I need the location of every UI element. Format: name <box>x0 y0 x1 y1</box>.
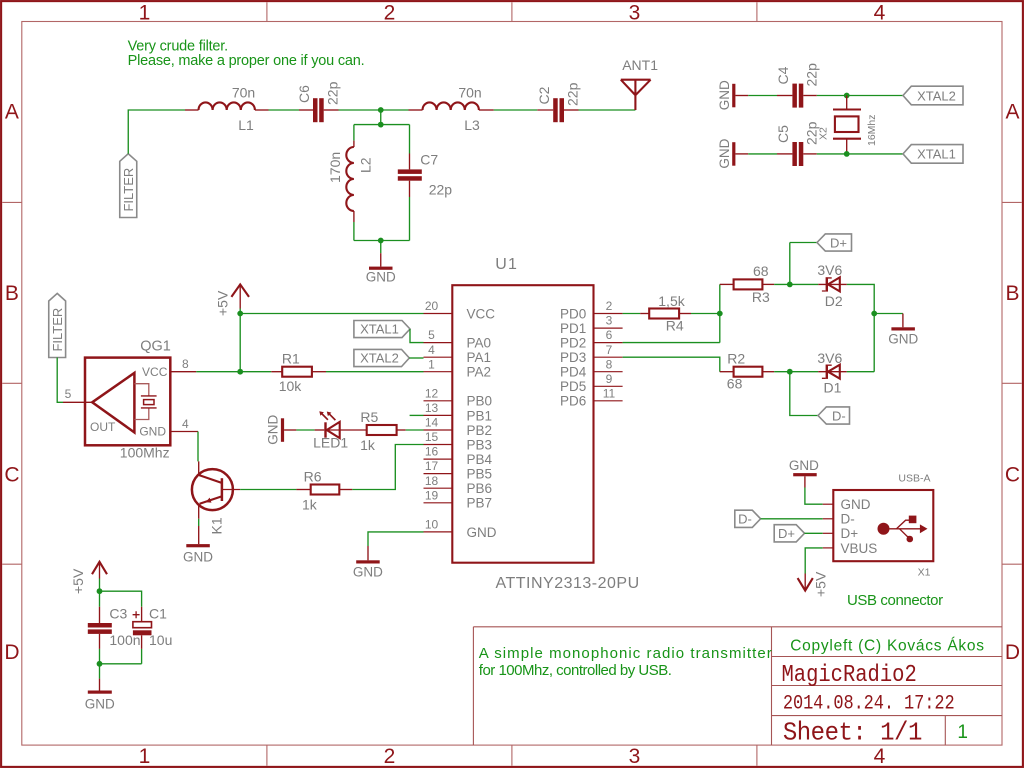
junction XTAL2 node <box>844 93 850 99</box>
frame row labels left A B C D <box>4 101 19 665</box>
pin 8 PD4 U1 right <box>594 371 623 373</box>
svg-text:4: 4 <box>182 417 189 431</box>
svg-text:D2: D2 <box>825 293 843 309</box>
junction +5V to VCC <box>237 311 243 317</box>
wire QG1 pin 4 GND <box>170 431 198 433</box>
wire K1 base to R6 <box>240 489 296 491</box>
supply +5V (row D) <box>92 562 107 574</box>
capacitor C5 22p <box>792 142 797 166</box>
capacitor C6 22p <box>313 98 318 122</box>
svg-text:22p: 22p <box>429 182 453 198</box>
svg-text:PA1: PA1 <box>467 350 492 365</box>
svg-text:XTAL1: XTAL1 <box>917 147 956 162</box>
pin GND X1 <box>823 503 834 505</box>
svg-text:3V6: 3V6 <box>817 262 842 278</box>
junction on main wire <box>378 107 384 113</box>
svg-text:X1: X1 <box>918 566 931 578</box>
wire ground to USB GND pin <box>804 476 806 487</box>
svg-text:22p: 22p <box>804 63 820 87</box>
svg-text:D+: D+ <box>778 526 795 541</box>
wire GND to C5 <box>735 153 748 155</box>
svg-text:FILTER: FILTER <box>50 308 65 352</box>
svg-text:K1: K1 <box>209 517 225 534</box>
note description <box>479 645 773 679</box>
svg-text:Sheet: 1/1: Sheet: 1/1 <box>783 719 922 748</box>
ground GND at C4 (rotated) <box>732 84 735 108</box>
svg-text:OUT: OUT <box>90 420 116 434</box>
ground GND at LED1 (rotated) <box>281 418 284 442</box>
svg-text:PB1: PB1 <box>467 408 493 423</box>
svg-text:2014.08.24. 17:22: 2014.08.24. 17:22 <box>783 691 955 715</box>
wire +5V to U1 VCC pin 20 <box>240 313 423 315</box>
svg-text:GND: GND <box>841 497 871 512</box>
svg-text:1k: 1k <box>360 437 376 453</box>
svg-text:1: 1 <box>428 357 435 371</box>
inductor L1 <box>199 102 255 110</box>
svg-text:C3: C3 <box>109 606 127 622</box>
junction tank bottom <box>378 238 384 244</box>
junction GND branch node <box>871 311 877 317</box>
ground GND right of D2 <box>891 327 915 330</box>
svg-text:C1: C1 <box>149 606 167 622</box>
svg-text:70n: 70n <box>232 85 255 101</box>
svg-text:C5: C5 <box>775 125 791 143</box>
svg-text:16Mhz: 16Mhz <box>866 114 878 146</box>
svg-text:18: 18 <box>425 474 439 488</box>
pin 19 PB7 U1 left <box>424 502 453 504</box>
flag D+ (USB) <box>774 525 804 542</box>
svg-text:GND: GND <box>353 564 383 579</box>
svg-text:GND: GND <box>266 414 281 444</box>
svg-text:for 100Mhz, controlled by USB.: for 100Mhz, controlled by USB. <box>479 662 672 679</box>
capacitor C3 100n <box>99 591 101 607</box>
junction +5V to R1 <box>237 369 243 375</box>
svg-text:USB connector: USB connector <box>847 592 943 609</box>
junction tank top <box>378 122 384 128</box>
svg-text:D: D <box>4 641 19 664</box>
svg-text:PB6: PB6 <box>467 481 493 496</box>
wire node to ground <box>874 313 903 315</box>
frame column labels bottom 1 2 3 4 <box>139 745 886 768</box>
svg-text:U1: U1 <box>495 256 518 273</box>
svg-text:PD2: PD2 <box>560 336 586 351</box>
svg-text:1: 1 <box>139 745 151 768</box>
wire GND to LED1 <box>284 429 296 431</box>
wire U1 pin 10 to ground <box>368 532 424 546</box>
ground GND at C3 <box>88 691 112 694</box>
svg-text:12: 12 <box>425 386 439 400</box>
svg-text:LED1: LED1 <box>313 434 348 450</box>
svg-text:4: 4 <box>428 343 435 357</box>
wire C5 to XTAL1 flag <box>803 153 817 155</box>
frame column labels top 1 2 3 4 <box>139 2 886 25</box>
svg-text:2: 2 <box>606 299 613 313</box>
svg-text:6: 6 <box>606 328 613 342</box>
wire L2 bottom lead <box>353 211 355 222</box>
pin 14 PB2 U1 left <box>424 429 453 431</box>
svg-text:B: B <box>1005 282 1019 305</box>
wire node riser R3 to PD2 <box>719 284 721 342</box>
capacitor C4 22p <box>792 84 797 108</box>
svg-text:XTAL1: XTAL1 <box>360 322 399 337</box>
wire stub on PB1 <box>410 414 424 416</box>
pin 9 PD5 U1 right <box>594 385 623 387</box>
frame column ticks bottom <box>267 745 757 766</box>
svg-text:15: 15 <box>425 430 439 444</box>
svg-text:16: 16 <box>425 445 439 459</box>
svg-text:PD5: PD5 <box>560 379 586 394</box>
pin 5 PA0 U1 left <box>424 342 453 344</box>
diode D1 zener 3V6 <box>818 371 847 373</box>
wire L2 top lead <box>353 125 355 141</box>
wire D- flag to X1 <box>761 518 823 520</box>
svg-text:GND: GND <box>85 696 115 711</box>
ground GND at K1 <box>186 544 210 547</box>
pin 6 PD2 U1 right <box>594 342 623 344</box>
supply +5V (top) <box>231 284 249 297</box>
USB trident icon <box>878 523 890 535</box>
svg-text:5: 5 <box>65 387 72 401</box>
ground tank GND <box>369 267 393 270</box>
wire C7 top lead <box>409 125 411 154</box>
svg-text:3: 3 <box>629 2 641 25</box>
diode LED1 <box>324 422 326 437</box>
wire FILTER flag to QG1 OUT <box>57 358 63 403</box>
pin 12 PB0 U1 left <box>424 400 453 402</box>
pin VBUS X1 <box>823 547 834 549</box>
svg-text:1,5k: 1,5k <box>658 293 685 309</box>
wire R6 to PB3 <box>352 445 423 490</box>
inductor L3 70n <box>423 102 479 110</box>
pin 17 PB5 U1 left <box>424 473 453 475</box>
svg-text:D+: D+ <box>830 235 847 250</box>
pin 3 PD1 U1 right <box>594 327 623 329</box>
wire C6 to L3 with junction <box>324 109 339 111</box>
junction top rail <box>97 588 103 594</box>
pin D- X1 <box>823 518 834 520</box>
flag FILTER (row B) <box>49 293 66 357</box>
svg-text:R6: R6 <box>304 468 322 484</box>
wire QG1 pin 5 stub <box>63 401 92 403</box>
svg-text:XTAL2: XTAL2 <box>360 350 399 365</box>
svg-text:3V6: 3V6 <box>817 350 842 366</box>
svg-text:PB0: PB0 <box>467 394 493 409</box>
svg-text:1: 1 <box>139 2 151 25</box>
svg-text:PD3: PD3 <box>560 350 586 365</box>
svg-text:PD0: PD0 <box>560 306 586 321</box>
svg-text:C2: C2 <box>536 86 552 104</box>
crystal X2 16Mhz <box>833 110 861 139</box>
svg-text:D+: D+ <box>841 526 859 541</box>
svg-text:1: 1 <box>957 722 968 743</box>
svg-text:4: 4 <box>874 745 886 768</box>
IC U1 ATTINY2313-20PU body <box>452 285 593 563</box>
wire C7 bottom lead <box>409 181 411 197</box>
svg-text:ANT1: ANT1 <box>622 57 658 73</box>
svg-text:11: 11 <box>603 386 616 400</box>
flag XTAL2 (at U1) <box>354 349 409 366</box>
svg-text:+5V: +5V <box>70 568 86 594</box>
wire K1 emitter to ground <box>198 519 200 526</box>
svg-text:C: C <box>4 464 19 487</box>
wire XTAL2 flag to PA1 <box>409 357 423 359</box>
svg-text:L1: L1 <box>238 117 254 133</box>
svg-text:PB7: PB7 <box>467 496 493 511</box>
flag FILTER (top) <box>120 154 137 218</box>
wire crystal bottom lead <box>846 139 848 154</box>
svg-text:70n: 70n <box>458 85 481 101</box>
svg-text:PB3: PB3 <box>467 437 493 452</box>
svg-text:GND: GND <box>366 270 396 285</box>
svg-text:170n: 170n <box>327 152 343 183</box>
wire D- riser <box>790 372 818 416</box>
svg-text:20: 20 <box>425 299 439 313</box>
svg-text:5: 5 <box>428 328 435 342</box>
svg-text:VCC: VCC <box>467 306 496 321</box>
svg-text:Please, make a proper one if y: Please, make a proper one if you can. <box>128 53 365 69</box>
pin 7 PD3 U1 right <box>594 356 623 358</box>
wire QG1 pin 8 VCC <box>170 371 196 373</box>
wire D+ riser <box>790 243 817 285</box>
svg-text:9: 9 <box>606 372 613 386</box>
wire GND to C4 <box>735 95 748 97</box>
svg-text:17: 17 <box>425 459 439 473</box>
wire tank bottom rail <box>354 240 410 242</box>
svg-text:MagicRadio2: MagicRadio2 <box>782 662 917 689</box>
svg-text:D-: D- <box>832 408 846 423</box>
wire C4 to XTAL2 flag <box>803 95 817 97</box>
svg-text:Copyleft (C) Kovács Ákos: Copyleft (C) Kovács Ákos <box>790 638 985 655</box>
wire junction drop to tank <box>380 110 382 125</box>
wire crystal top lead <box>846 96 848 110</box>
svg-text:D1: D1 <box>824 380 842 396</box>
svg-text:8: 8 <box>182 357 189 371</box>
wire tank top rail <box>354 124 410 126</box>
svg-text:D-: D- <box>738 512 752 527</box>
connector X1 USB-A body <box>833 490 933 561</box>
svg-text:3: 3 <box>629 745 641 768</box>
svg-text:GND: GND <box>467 525 497 540</box>
pin 13 PB1 U1 left <box>424 414 453 416</box>
svg-text:2: 2 <box>384 745 396 768</box>
svg-text:68: 68 <box>727 375 743 391</box>
svg-text:3: 3 <box>606 314 613 328</box>
svg-text:PA2: PA2 <box>467 365 492 380</box>
capacitor C2 22p <box>553 98 558 122</box>
flag XTAL1 (at U1) <box>354 321 410 338</box>
svg-text:GND: GND <box>717 138 732 168</box>
op-amp QG1 oscillator box <box>85 358 170 446</box>
resistor R5 1k <box>367 425 397 435</box>
pin 15 PB3 U1 left <box>424 444 453 446</box>
svg-text:7: 7 <box>606 343 613 357</box>
junction D+ node <box>787 282 793 288</box>
ground GND above USB (rotated 180) <box>793 473 817 476</box>
resistor R4 1,5k <box>623 313 641 315</box>
wire XTAL1 flag to PA0 <box>410 329 424 343</box>
wire D1 to right vertical <box>847 371 874 373</box>
pin 2 PD0 U1 right <box>594 313 623 315</box>
svg-text:D-: D- <box>841 512 855 527</box>
resistor R6 1k <box>311 485 340 495</box>
svg-text:100Mhz: 100Mhz <box>120 445 170 461</box>
pin 11 PD6 U1 right <box>594 400 623 402</box>
svg-text:A: A <box>1005 101 1019 124</box>
pin 16 PB4 U1 left <box>424 458 453 460</box>
wire D+ flag to X1 <box>805 532 823 534</box>
svg-text:10k: 10k <box>279 378 303 394</box>
svg-text:2: 2 <box>384 2 396 25</box>
flag D- (mid) <box>818 407 850 424</box>
svg-text:VCC: VCC <box>142 365 168 379</box>
svg-text:10: 10 <box>425 518 439 532</box>
transistor K1 <box>198 461 200 475</box>
wire L1 to C6 <box>255 109 269 111</box>
flag XTAL2 <box>903 86 963 105</box>
svg-text:L2: L2 <box>358 157 374 173</box>
flag D- (USB) <box>735 510 761 527</box>
wire PD3 to R2 <box>623 357 720 372</box>
wire C2 to antenna <box>564 109 579 111</box>
diode D2 zener 3V6 <box>818 283 847 285</box>
svg-text:R4: R4 <box>666 317 684 333</box>
svg-text:PD6: PD6 <box>560 394 586 409</box>
inductor L2 170n <box>346 147 354 211</box>
ground GND below U1 <box>356 560 380 563</box>
svg-text:+5V: +5V <box>215 290 231 316</box>
svg-text:GND: GND <box>888 332 918 347</box>
svg-text:D: D <box>1005 641 1020 664</box>
title block outline <box>473 627 1002 745</box>
wire D2 to right vertical <box>847 284 874 371</box>
junction XTAL1 node <box>844 151 850 157</box>
pin 20 VCC U1 left <box>424 313 453 315</box>
svg-text:GND: GND <box>139 424 166 438</box>
svg-text:19: 19 <box>425 488 439 502</box>
resistor R2 68 <box>720 371 734 373</box>
svg-text:A: A <box>5 101 19 124</box>
svg-text:PB5: PB5 <box>467 467 493 482</box>
antenna ANT1 <box>621 80 651 110</box>
svg-text:22p: 22p <box>324 81 340 105</box>
svg-text:4: 4 <box>874 2 886 25</box>
svg-text:8: 8 <box>606 357 613 371</box>
pin D+ X1 <box>823 532 834 534</box>
svg-text:USB-A: USB-A <box>898 472 930 484</box>
pin 10 GND U1 left <box>424 531 453 533</box>
svg-text:+5V: +5V <box>813 571 829 597</box>
wire L3 to C2 <box>479 109 494 111</box>
wire PD2 to node <box>623 342 720 344</box>
wire pin stub L1 left <box>185 109 199 111</box>
svg-text:GND: GND <box>789 458 819 473</box>
wire VBUS to +5V <box>805 548 823 574</box>
svg-text:VBUS: VBUS <box>841 541 878 556</box>
flag XTAL1 <box>903 145 963 164</box>
supply +5V (down arrow at USB) <box>804 574 806 591</box>
flag D+ (top) <box>817 234 852 251</box>
resistor R3 68 <box>720 283 734 285</box>
svg-text:FILTER: FILTER <box>121 168 136 212</box>
pin 18 PB6 U1 left <box>424 487 453 489</box>
svg-text:PD4: PD4 <box>560 365 587 380</box>
svg-text:C4: C4 <box>775 66 791 84</box>
svg-text:B: B <box>5 282 19 305</box>
svg-text:GND: GND <box>183 550 213 565</box>
svg-text:22p: 22p <box>565 82 581 106</box>
ground GND at C5 (rotated) <box>732 142 735 166</box>
wire tank to ground <box>380 241 382 254</box>
svg-text:R2: R2 <box>727 350 745 366</box>
svg-text:L3: L3 <box>464 117 480 133</box>
svg-text:PD1: PD1 <box>560 321 586 336</box>
svg-text:68: 68 <box>753 263 769 279</box>
note: very crude filter <box>128 39 365 69</box>
svg-text:14: 14 <box>425 416 439 430</box>
svg-text:C: C <box>1005 464 1020 487</box>
pin 4 PA1 U1 left <box>424 356 453 358</box>
svg-text:PB2: PB2 <box>467 423 493 438</box>
capacitor C1 10u polarized <box>141 607 143 622</box>
frame row labels right A B C D <box>1005 101 1020 665</box>
svg-text:PB4: PB4 <box>467 452 493 467</box>
svg-text:22p: 22p <box>804 121 820 145</box>
svg-text:10u: 10u <box>149 632 172 648</box>
svg-text:1k: 1k <box>302 496 318 512</box>
svg-text:GND: GND <box>717 80 732 110</box>
wire to ground <box>99 664 101 679</box>
capacitor C7 22p <box>398 169 422 174</box>
svg-text:R3: R3 <box>752 289 770 305</box>
junction bottom rail <box>97 661 103 667</box>
wire top rail to C1 <box>100 591 142 607</box>
svg-text:XTAL2: XTAL2 <box>917 88 956 103</box>
svg-text:13: 13 <box>425 401 439 415</box>
resistor R1 10k <box>240 371 271 373</box>
junction R4 right node <box>717 311 723 317</box>
svg-text:R5: R5 <box>360 409 378 425</box>
wire FILTER flag to L1 <box>128 110 185 154</box>
svg-text:R1: R1 <box>282 350 300 366</box>
frame column ticks top <box>267 2 757 21</box>
pin 1 PA2 U1 left <box>424 371 453 373</box>
wire bottom rail <box>100 663 142 665</box>
svg-text:C6: C6 <box>296 85 312 103</box>
svg-text:C7: C7 <box>420 152 438 168</box>
frame row ticks left <box>2 202 22 564</box>
junction D- node <box>787 369 793 375</box>
svg-text:A simple monophonic radio tran: A simple monophonic radio transmitter <box>479 645 773 662</box>
svg-text:QG1: QG1 <box>140 339 171 355</box>
svg-text:PA0: PA0 <box>467 336 492 351</box>
frame row ticks right <box>1002 202 1022 564</box>
svg-text:ATTINY2313-20PU: ATTINY2313-20PU <box>496 575 640 592</box>
